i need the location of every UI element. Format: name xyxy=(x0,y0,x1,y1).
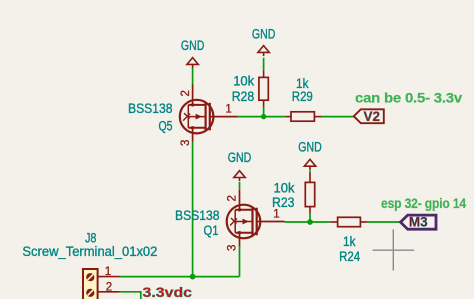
svg-text:1: 1 xyxy=(105,266,111,278)
svg-text:2: 2 xyxy=(106,281,112,293)
svg-text:esp 32- gpio 14: esp 32- gpio 14 xyxy=(381,195,466,211)
wire GND1 to Q5 drain xyxy=(192,68,194,85)
resistor R29 xyxy=(286,112,322,121)
transistor Q5 labels xyxy=(128,101,173,134)
transistor Q1 xyxy=(227,190,285,247)
connector J8 screw terminal xyxy=(83,269,120,299)
svg-text:10k: 10k xyxy=(233,74,254,89)
wire GND4 to R23 top xyxy=(309,170,311,172)
svg-text:M3: M3 xyxy=(409,215,428,230)
ground GND1 above Q5 xyxy=(187,58,198,69)
svg-text:BSS138: BSS138 xyxy=(175,208,220,223)
svg-text:BSS138: BSS138 xyxy=(128,101,173,116)
svg-text:10k: 10k xyxy=(274,181,295,196)
hierarchical label M3 (selected) xyxy=(401,215,437,230)
resistor R28 xyxy=(259,70,268,107)
svg-text:V2: V2 xyxy=(364,109,381,124)
svg-text:1: 1 xyxy=(273,208,279,220)
wire Q5 source down xyxy=(192,141,194,277)
svg-text:R28: R28 xyxy=(232,89,255,104)
wire Q1 source up xyxy=(239,246,241,277)
svg-text:R23: R23 xyxy=(272,195,295,210)
transistor Q5 xyxy=(180,85,238,142)
wire R24 right to M3 xyxy=(368,221,401,223)
wire R23 bottom to junction xyxy=(309,214,311,223)
wire junction to R29 left xyxy=(264,116,286,118)
svg-text:1: 1 xyxy=(225,103,231,115)
svg-text:GND: GND xyxy=(181,38,205,53)
ground GND3 above Q1 xyxy=(234,171,245,182)
cursor crosshair xyxy=(373,229,415,270)
transistor Q1 labels xyxy=(175,208,220,238)
ground GND2 above R28 xyxy=(258,46,269,57)
junction dot at R28 bottom xyxy=(261,114,266,119)
wire Q5 gate to junction xyxy=(238,116,264,118)
wire J8 pin2 xyxy=(120,292,141,299)
svg-text:1k: 1k xyxy=(343,234,356,249)
wire R29 right to V2 xyxy=(322,116,354,118)
resistor R24 xyxy=(330,217,368,226)
svg-text:GND: GND xyxy=(228,150,252,165)
svg-text:R24: R24 xyxy=(339,249,360,264)
svg-text:2: 2 xyxy=(227,195,239,201)
ground GND4 above R23 xyxy=(304,159,315,170)
wire bottom horizontal xyxy=(120,276,240,278)
svg-text:GND: GND xyxy=(298,140,322,155)
hierarchical label V2 xyxy=(354,109,384,124)
junction dot at R23 bottom xyxy=(307,219,313,225)
junction dot at J8 pin1 wire xyxy=(190,274,196,280)
wire GND2 to R28 top xyxy=(263,58,265,71)
wire R28 bottom to junction xyxy=(263,107,265,116)
wire Q1 gate to R24 xyxy=(285,221,331,223)
svg-text:3.3vdc: 3.3vdc xyxy=(143,284,193,299)
svg-text:3: 3 xyxy=(227,245,239,251)
wire GND3 to Q1 drain xyxy=(239,182,241,189)
svg-text:Screw_Terminal_01x02: Screw_Terminal_01x02 xyxy=(22,244,157,259)
svg-text:Q1: Q1 xyxy=(204,223,219,238)
svg-text:3: 3 xyxy=(180,140,192,146)
svg-text:Q5: Q5 xyxy=(159,119,173,134)
svg-text:2: 2 xyxy=(180,90,192,96)
svg-text:can be 0.5- 3.3v: can be 0.5- 3.3v xyxy=(355,90,462,106)
svg-text:GND: GND xyxy=(252,27,276,42)
resistor R23 xyxy=(305,173,314,214)
svg-text:R29: R29 xyxy=(292,89,313,104)
